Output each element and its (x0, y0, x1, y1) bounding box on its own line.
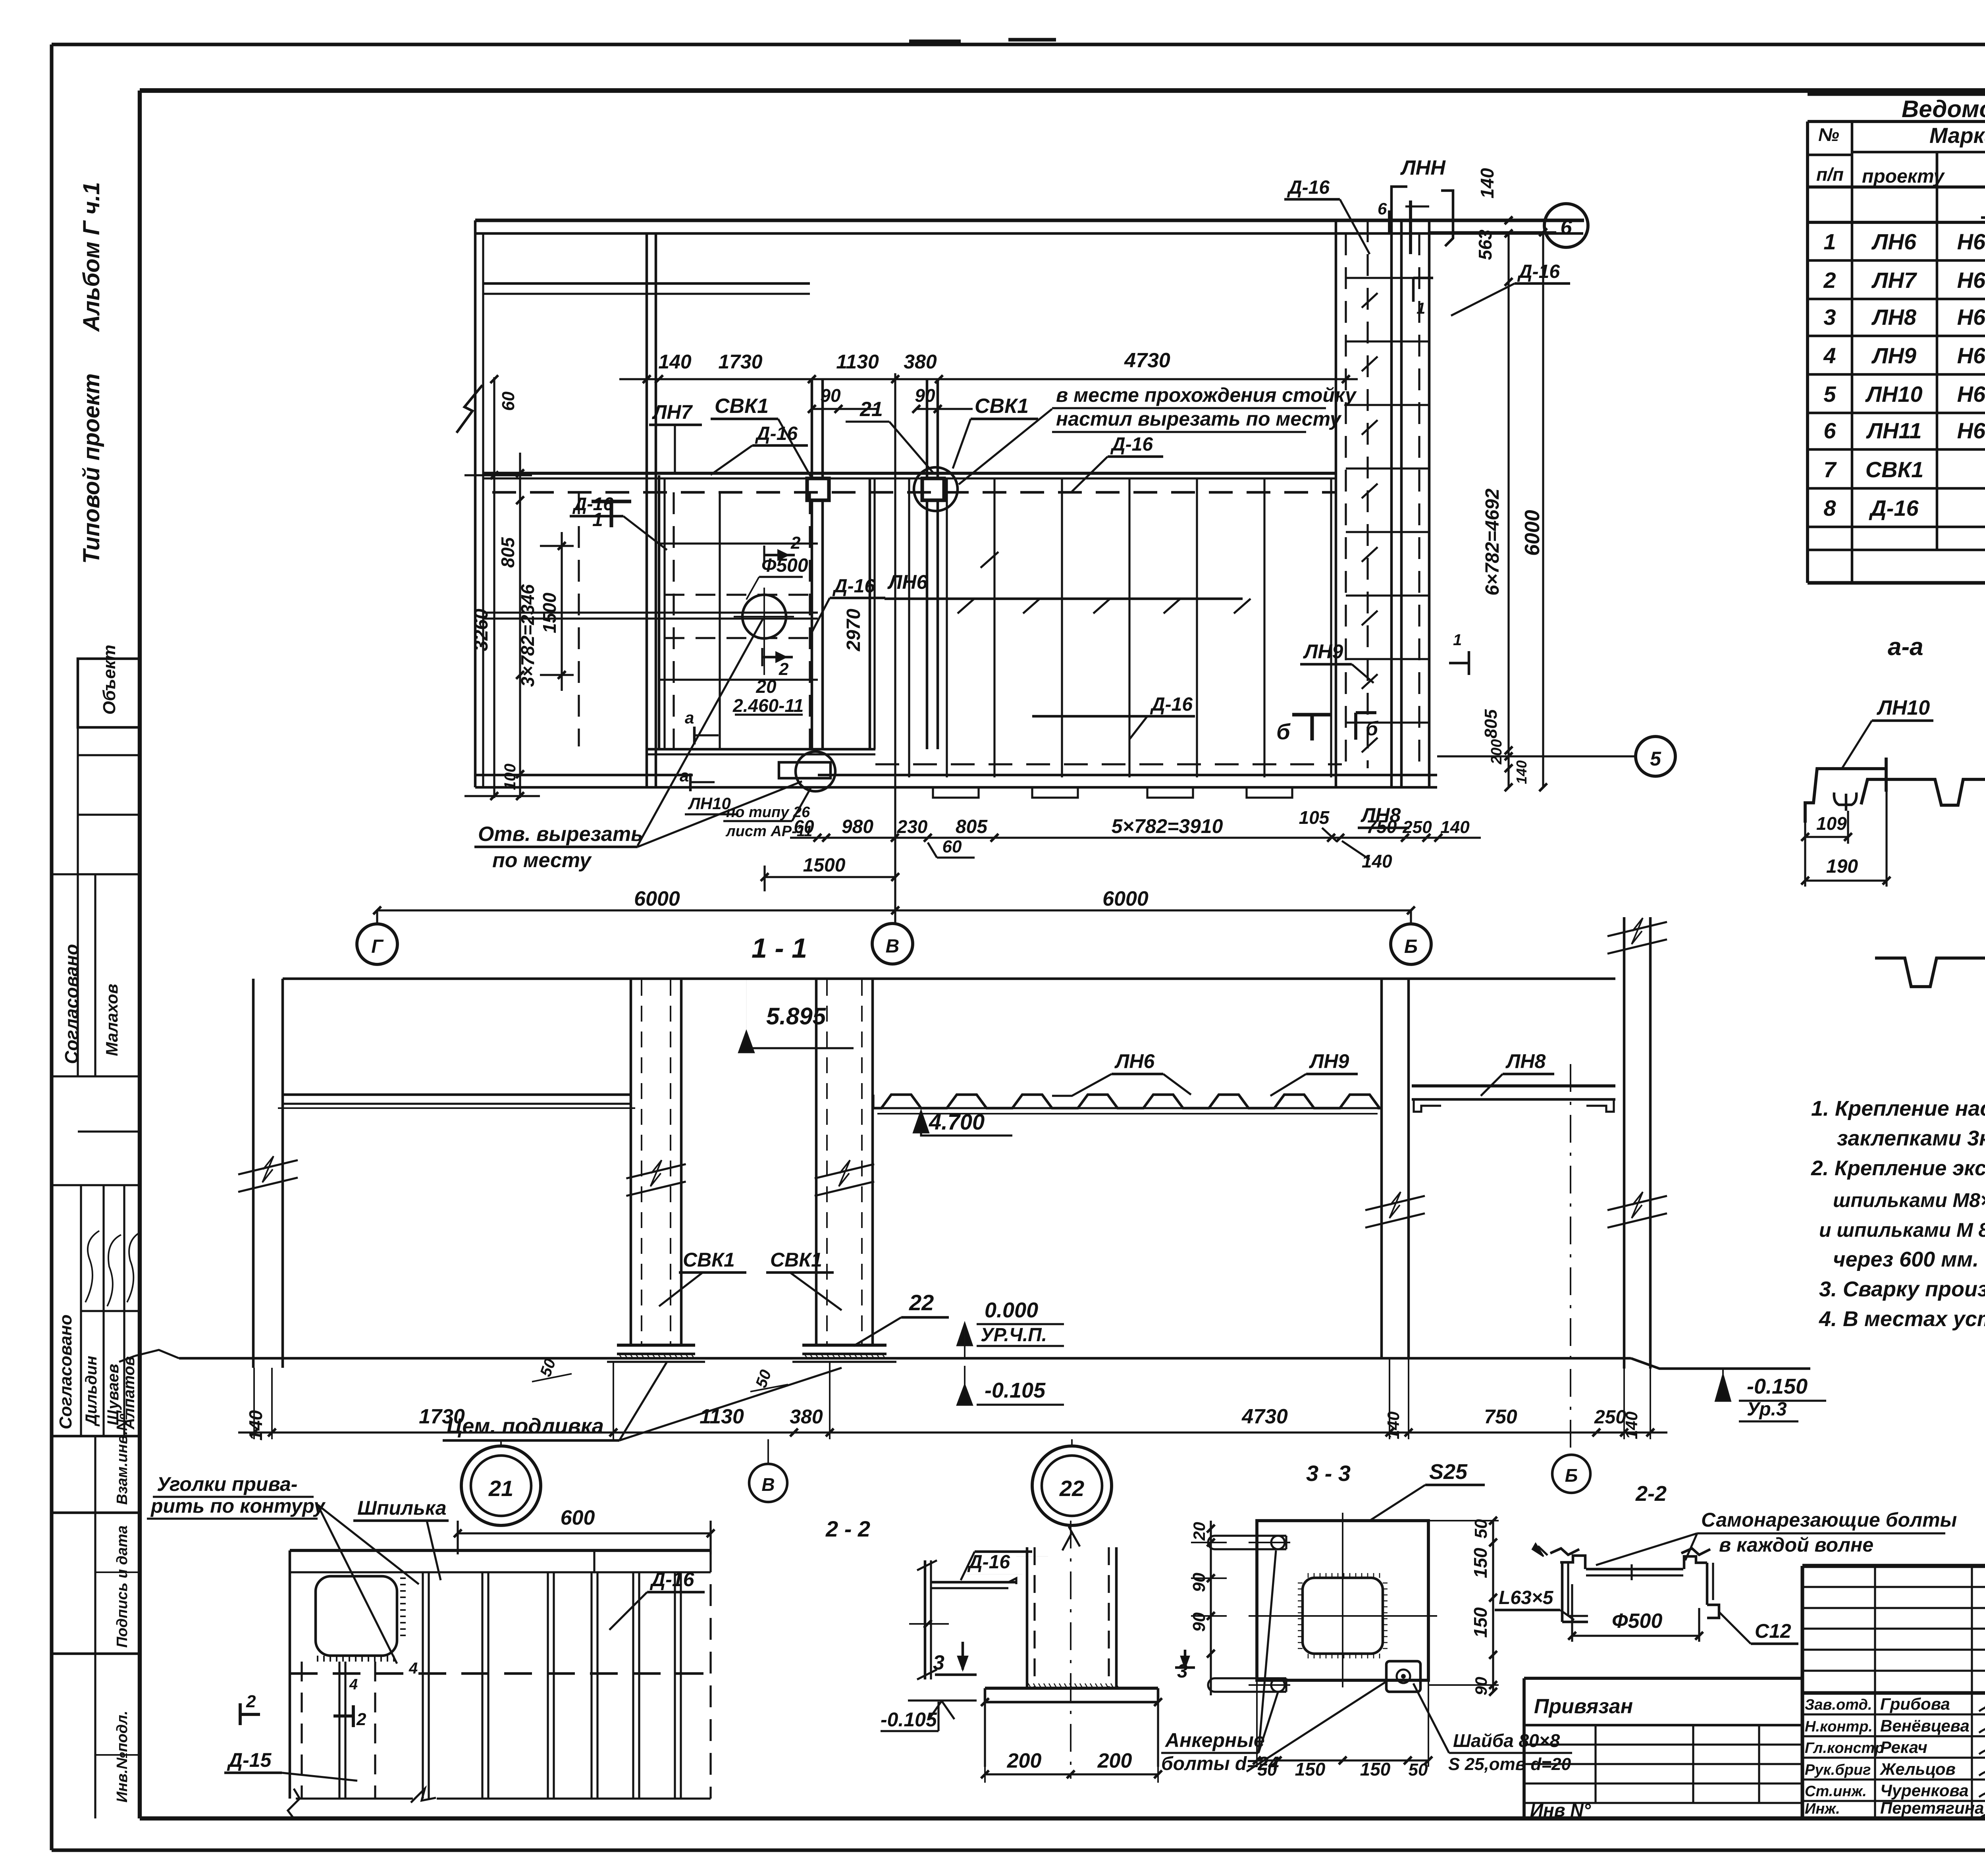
svg-text:Инж.: Инж. (1805, 1801, 1840, 1817)
svg-text:ЛН9: ЛН9 (1871, 343, 1916, 368)
svg-text:S 25,отв d=20: S 25,отв d=20 (1448, 1755, 1571, 1774)
svg-text:6000: 6000 (1521, 510, 1544, 556)
svg-text:2: 2 (779, 659, 789, 679)
svg-text:Б: Б (1404, 936, 1418, 957)
svg-text:140: 140 (658, 351, 692, 373)
svg-text:380: 380 (790, 1406, 823, 1428)
svg-text:В: В (761, 1474, 775, 1495)
svg-text:№: № (1818, 124, 1839, 145)
svg-text:3. Сварку производить электр: 3. Сварку производить электродами марки … (1819, 1277, 1985, 1301)
svg-text:3260: 3260 (471, 609, 492, 651)
svg-text:ЛН10: ЛН10 (1876, 696, 1930, 719)
svg-text:200: 200 (1007, 1749, 1042, 1772)
svg-text:ЛН8: ЛН8 (1505, 1050, 1546, 1072)
svg-text:Н60-782- 0,8: Н60-782- 0,8 (1957, 229, 1985, 254)
svg-text:L63×5: L63×5 (1499, 1587, 1554, 1608)
svg-text:4: 4 (349, 1676, 358, 1693)
svg-text:2 - 2: 2 - 2 (825, 1516, 870, 1541)
svg-text:Самонарезающие болты: Самонарезающие болты (1701, 1509, 1957, 1531)
svg-text:2-2: 2-2 (1635, 1482, 1667, 1506)
svg-text:Гл.констр: Гл.констр (1805, 1740, 1884, 1756)
svg-text:Согласовано: Согласовано (56, 1315, 75, 1429)
svg-text:Н60-782- 0,8: Н60-782- 0,8 (1957, 305, 1985, 330)
svg-text:90: 90 (1189, 1573, 1209, 1592)
svg-text:Венёвцева: Венёвцева (1880, 1716, 1970, 1735)
svg-text:Д-16: Д-16 (572, 494, 613, 514)
svg-text:Перетягина: Перетягина (1880, 1799, 1984, 1817)
svg-text:Д-15: Д-15 (227, 1749, 272, 1771)
svg-text:по месту: по месту (492, 849, 592, 872)
svg-text:-0.150: -0.150 (1747, 1375, 1808, 1398)
svg-text:1: 1 (1416, 300, 1425, 317)
svg-text:1: 1 (1453, 631, 1462, 649)
svg-text:1500: 1500 (803, 855, 846, 876)
svg-text:УР.Ч.П.: УР.Ч.П. (981, 1325, 1047, 1346)
svg-text:СВК1: СВК1 (770, 1249, 822, 1271)
svg-text:190: 190 (1826, 856, 1858, 877)
svg-text:Рук.бриг: Рук.бриг (1805, 1762, 1871, 1778)
svg-text:4: 4 (409, 1660, 418, 1677)
svg-text:1: 1 (1823, 229, 1836, 254)
svg-text:ЛНН: ЛНН (1400, 156, 1446, 179)
svg-text:2.460-11: 2.460-11 (732, 695, 804, 716)
svg-text:Рекач: Рекач (1880, 1738, 1927, 1756)
svg-text:через 600 мм.: через 600 мм. (1833, 1247, 1979, 1271)
svg-text:Ф500: Ф500 (761, 555, 808, 576)
svg-text:150: 150 (1470, 1607, 1491, 1638)
svg-text:3 - 3: 3 - 3 (1306, 1461, 1351, 1486)
svg-text:1500: 1500 (539, 592, 560, 633)
svg-text:6: 6 (1378, 199, 1387, 218)
svg-text:ЛН11: ЛН11 (1866, 418, 1921, 443)
svg-text:Объект: Объект (100, 645, 119, 715)
svg-text:90: 90 (1472, 1677, 1490, 1695)
svg-text:Д-16: Д-16 (1869, 496, 1919, 521)
svg-text:Ведомость: Ведомость (1902, 96, 1985, 122)
svg-text:3: 3 (1823, 305, 1836, 330)
svg-text:Зав.отд.: Зав.отд. (1805, 1697, 1872, 1713)
svg-text:ЛН6: ЛН6 (1114, 1050, 1155, 1072)
svg-text:Д-16: Д-16 (1287, 177, 1330, 198)
svg-text:Типовой проект: Типовой проект (79, 373, 104, 564)
svg-text:ЛН10: ЛН10 (1865, 382, 1922, 407)
svg-text:5.895: 5.895 (766, 1003, 827, 1030)
svg-text:6000: 6000 (634, 887, 680, 910)
svg-text:380: 380 (904, 351, 937, 373)
svg-text:805: 805 (1481, 709, 1501, 738)
svg-text:6000: 6000 (1102, 887, 1149, 910)
svg-text:и шпильками М 8 ×1,25- 6g: и шпильками М 8 ×1,25- 6g ×180.109.40×02… (1819, 1219, 1985, 1241)
svg-text:-0.105: -0.105 (985, 1379, 1046, 1402)
svg-text:150: 150 (1360, 1759, 1391, 1780)
svg-text:90: 90 (915, 385, 935, 406)
svg-text:22: 22 (1059, 1476, 1084, 1501)
svg-text:б: б (1276, 719, 1291, 744)
svg-text:настил вырезать по месту: настил вырезать по месту (1056, 408, 1342, 430)
svg-text:заклепками 3к-12 ТУ36-2088: заклепками 3к-12 ТУ36-2088-77 с шагом 50… (1837, 1126, 1985, 1150)
svg-text:Д-16: Д-16 (1517, 261, 1560, 282)
svg-text:СВК1: СВК1 (683, 1249, 735, 1271)
svg-text:б: б (1366, 717, 1379, 740)
svg-text:СВК1: СВК1 (975, 395, 1029, 418)
svg-text:Подпись и дата: Подпись и дата (114, 1525, 131, 1648)
svg-text:2970: 2970 (843, 609, 864, 652)
svg-text:Н60-782- 0,8: Н60-782- 0,8 (1957, 382, 1985, 407)
svg-text:2: 2 (790, 533, 801, 553)
svg-text:Взам.инв.№: Взам.инв.№ (114, 1413, 131, 1505)
svg-text:6×782=4692: 6×782=4692 (1482, 488, 1503, 596)
svg-text:2: 2 (246, 1692, 256, 1711)
svg-text:ЛН6: ЛН6 (1871, 229, 1917, 254)
svg-text:Н60-782- 0,8: Н60-782- 0,8 (1957, 343, 1985, 368)
svg-text:рить по контуру: рить по контуру (150, 1495, 326, 1517)
svg-text:Д-16: Д-16 (832, 576, 875, 597)
svg-text:3×782=2346: 3×782=2346 (517, 584, 538, 687)
svg-text:21: 21 (488, 1476, 513, 1501)
svg-text:2: 2 (1823, 268, 1836, 293)
svg-text:Ур.3: Ур.3 (1747, 1399, 1787, 1420)
svg-text:Д-16: Д-16 (755, 423, 798, 444)
svg-text:Грибова: Грибова (1880, 1695, 1950, 1713)
svg-text:140: 140 (1622, 1411, 1641, 1439)
svg-text:а-а: а-а (1888, 633, 1923, 661)
svg-text:Малахов: Малахов (102, 984, 121, 1056)
svg-text:50: 50 (1409, 1760, 1428, 1780)
svg-text:250: 250 (1402, 817, 1432, 837)
svg-text:п/п: п/п (1816, 164, 1844, 185)
svg-text:Д-16: Д-16 (1110, 434, 1153, 455)
svg-text:563: 563 (1475, 229, 1495, 260)
svg-text:Н60-782- 0,8: Н60-782- 0,8 (1957, 418, 1985, 443)
svg-text:0.000: 0.000 (985, 1298, 1038, 1322)
svg-text:200: 200 (1097, 1749, 1132, 1772)
svg-text:6: 6 (1561, 216, 1573, 239)
svg-text:50: 50 (1471, 1519, 1491, 1539)
svg-text:140: 140 (1440, 817, 1470, 837)
svg-text:СВК1: СВК1 (1866, 457, 1923, 482)
svg-text:1 - 1: 1 - 1 (752, 933, 807, 964)
svg-text:лист АР-11: лист АР-11 (725, 823, 812, 840)
svg-text:5×782=3910: 5×782=3910 (1112, 815, 1223, 837)
svg-text:Ф500: Ф500 (1612, 1610, 1662, 1633)
svg-text:6: 6 (1823, 418, 1836, 443)
svg-text:S25: S25 (1429, 1460, 1468, 1484)
svg-text:20: 20 (1190, 1522, 1208, 1541)
svg-text:22: 22 (909, 1290, 934, 1315)
svg-text:140: 140 (1384, 1411, 1403, 1439)
svg-text:140: 140 (1362, 851, 1392, 871)
svg-text:4730: 4730 (1241, 1405, 1288, 1428)
svg-text:90: 90 (820, 385, 841, 406)
svg-text:Д-16: Д-16 (1150, 694, 1193, 715)
svg-text:8: 8 (1823, 496, 1836, 521)
svg-text:Дильдин: Дильдин (83, 1356, 100, 1427)
svg-text:140: 140 (1513, 760, 1530, 784)
svg-text:Альбом Г ч.1: Альбом Г ч.1 (79, 182, 104, 332)
svg-text:ЛН7: ЛН7 (652, 401, 693, 423)
svg-text:140: 140 (245, 1410, 266, 1440)
svg-text:105: 105 (1299, 807, 1330, 828)
svg-text:ЛН6: ЛН6 (887, 571, 928, 593)
svg-text:109: 109 (1816, 813, 1847, 834)
svg-text:в каждой волне: в каждой волне (1719, 1534, 1873, 1556)
svg-text:5: 5 (1823, 382, 1836, 407)
svg-text:Шпилька: Шпилька (357, 1497, 447, 1519)
svg-text:750: 750 (1366, 816, 1397, 837)
svg-text:805: 805 (956, 816, 988, 837)
svg-text:805: 805 (497, 537, 518, 568)
svg-text:Отв. вырезать: Отв. вырезать (478, 823, 643, 846)
svg-text:100: 100 (501, 764, 519, 790)
svg-text:7: 7 (1823, 457, 1837, 482)
svg-text:Уголки прива-: Уголки прива- (157, 1473, 297, 1495)
svg-text:4. В местах установки стоек: 4. В местах установки стоек СВК1 грунт у… (1819, 1307, 1985, 1331)
svg-text:Жельцов: Жельцов (1879, 1760, 1956, 1778)
svg-text:2. Крепление экструзионных: 2. Крепление экструзионных панелей к уго… (1811, 1157, 1985, 1180)
svg-text:1730: 1730 (718, 351, 762, 373)
svg-text:90: 90 (1189, 1612, 1209, 1632)
svg-text:Анкерные: Анкерные (1164, 1729, 1265, 1751)
svg-text:Н60-782- 0,8: Н60-782- 0,8 (1957, 268, 1985, 293)
svg-text:3: 3 (933, 1651, 944, 1674)
svg-text:СВК1: СВК1 (715, 395, 769, 418)
svg-text:1130: 1130 (836, 351, 879, 373)
svg-text:Н.контр.: Н.контр. (1805, 1718, 1873, 1735)
svg-text:в месте прохождения стойку: в месте прохождения стойку (1056, 384, 1357, 406)
svg-text:Согласовано: Согласовано (61, 944, 82, 1064)
svg-text:140: 140 (1477, 168, 1497, 199)
svg-text:150: 150 (1295, 1759, 1326, 1780)
svg-text:ЛН7: ЛН7 (1871, 268, 1918, 293)
svg-text:5: 5 (1650, 748, 1661, 770)
svg-text:21: 21 (860, 398, 883, 421)
svg-text:1730: 1730 (419, 1405, 465, 1428)
svg-text:проекту: проекту (1862, 166, 1945, 187)
svg-text:Ст.инж.: Ст.инж. (1805, 1783, 1867, 1800)
svg-text:4.700: 4.700 (929, 1109, 985, 1134)
svg-text:250: 250 (1594, 1407, 1626, 1428)
svg-text:750: 750 (1484, 1406, 1517, 1428)
svg-text:С12: С12 (1755, 1620, 1791, 1642)
svg-text:980: 980 (842, 816, 873, 837)
svg-text:а: а (685, 708, 694, 727)
svg-text:Д-16: Д-16 (649, 1568, 695, 1591)
svg-text:болты d=24: болты d=24 (1161, 1753, 1279, 1774)
svg-text:Инв N°: Инв N° (1530, 1800, 1591, 1820)
svg-text:ЛН9: ЛН9 (1309, 1050, 1349, 1072)
svg-text:200: 200 (1488, 739, 1505, 765)
svg-text:2: 2 (356, 1710, 366, 1729)
svg-text:Привязан: Привязан (1534, 1695, 1633, 1718)
svg-text:ЛН8: ЛН8 (1871, 305, 1917, 330)
svg-text:4730: 4730 (1124, 349, 1170, 372)
svg-text:Инв.№подл.: Инв.№подл. (114, 1711, 131, 1803)
svg-text:Марка: Марка (1929, 123, 1985, 148)
svg-text:-0.105: -0.105 (881, 1708, 937, 1731)
svg-text:Шайба 80×8: Шайба 80×8 (1453, 1730, 1560, 1751)
svg-text:Цем. подливка: Цем. подливка (447, 1414, 604, 1438)
svg-text:4: 4 (1823, 343, 1836, 368)
svg-text:60: 60 (499, 391, 518, 411)
svg-text:600: 600 (561, 1506, 595, 1529)
svg-text:60: 60 (942, 837, 962, 856)
svg-text:1130: 1130 (700, 1405, 744, 1428)
svg-text:Б: Б (1565, 1465, 1578, 1486)
svg-text:ЛН10: ЛН10 (688, 794, 731, 813)
svg-text:шпильками М8×1,25-6g ×160.: шпильками М8×1,25-6g ×160.109.40×026 ГОС… (1833, 1189, 1985, 1211)
svg-text:20: 20 (755, 676, 777, 697)
svg-text:Чуренкова: Чуренкова (1880, 1781, 1969, 1800)
svg-text:В: В (886, 936, 900, 957)
svg-text:Г: Г (371, 936, 384, 957)
svg-text:150: 150 (1470, 1548, 1491, 1578)
svg-text:1. Крепление настила между: 1. Крепление настила между собой произво… (1811, 1097, 1985, 1120)
svg-text:230: 230 (897, 816, 928, 837)
svg-text:ЛН9: ЛН9 (1303, 640, 1343, 663)
